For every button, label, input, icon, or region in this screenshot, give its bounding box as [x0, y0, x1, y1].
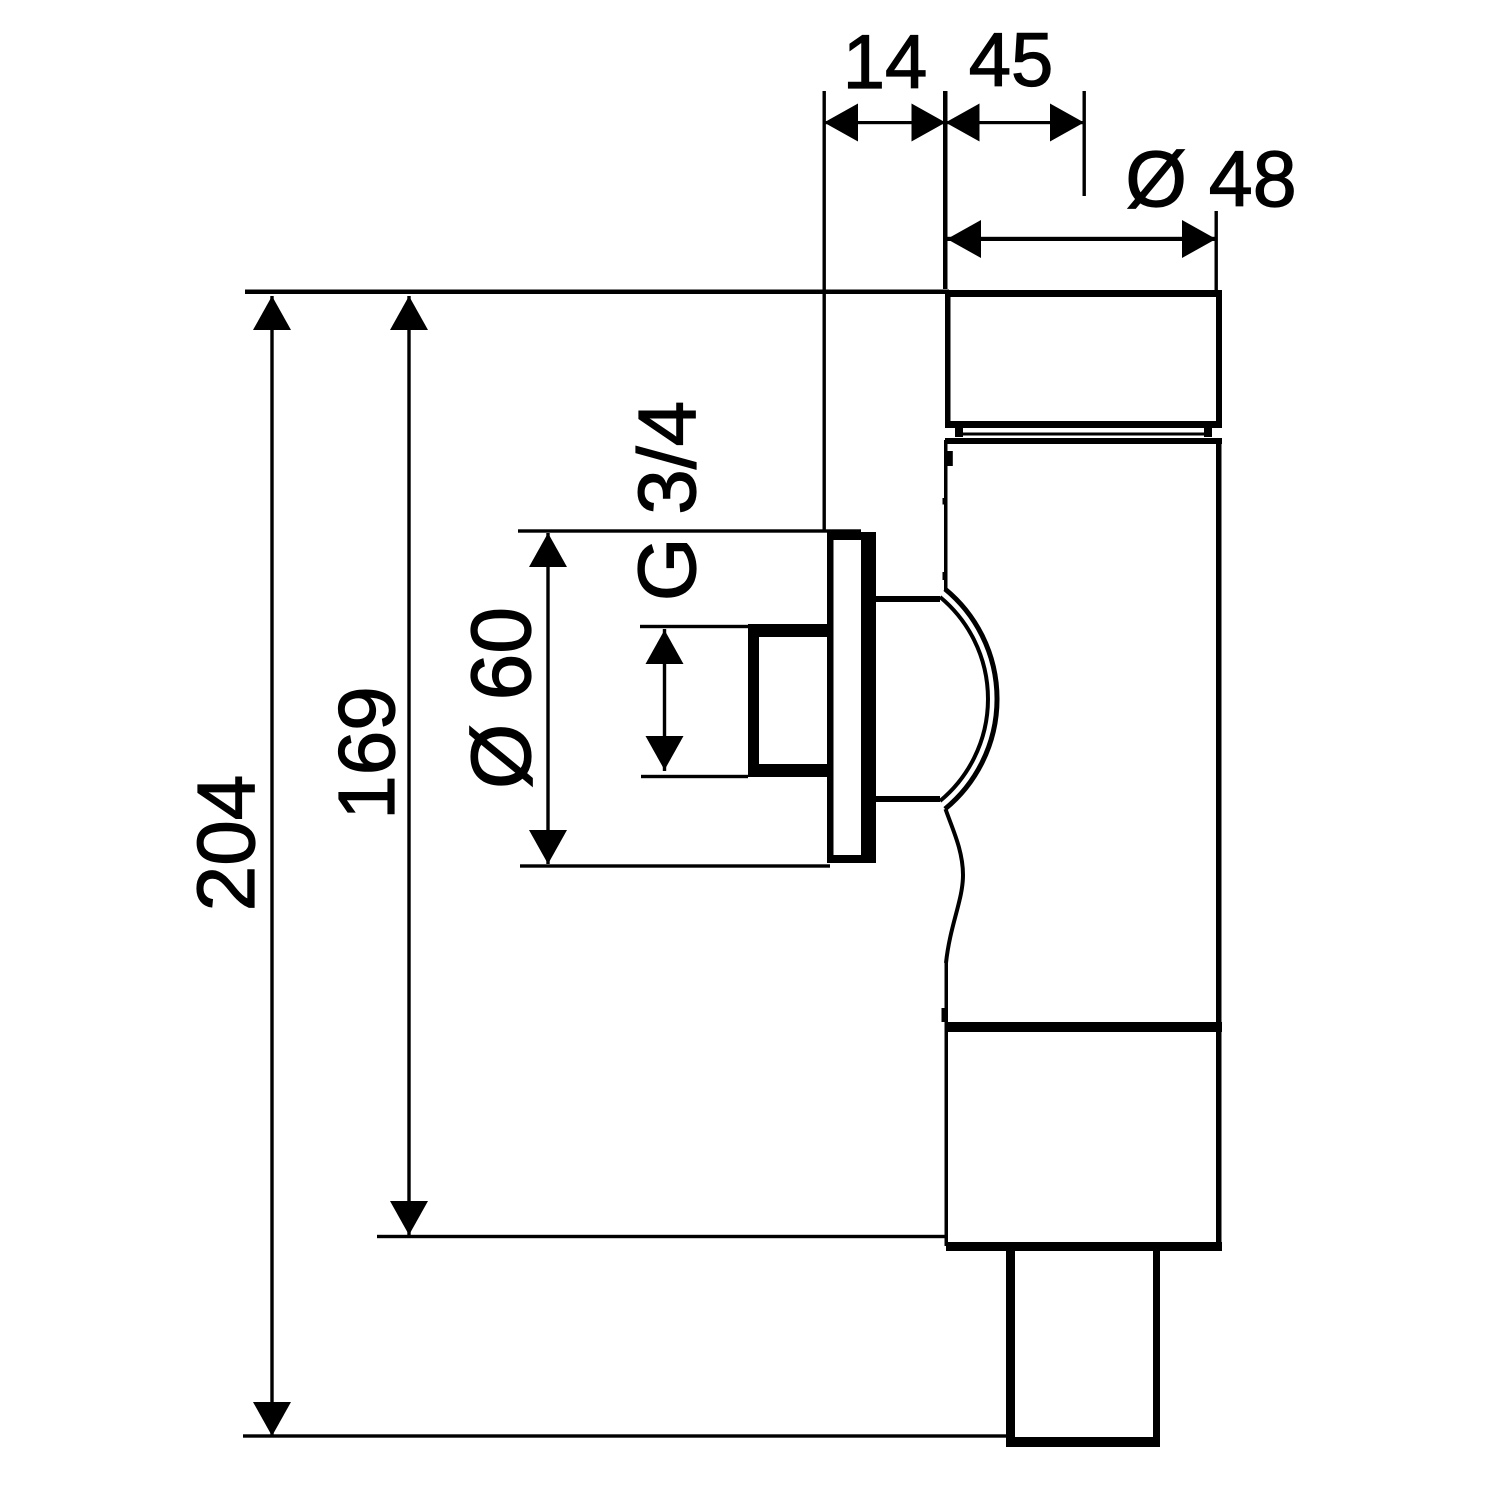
svg-text:169: 169 [322, 686, 411, 819]
extension line 169 bottom [377, 1235, 948, 1238]
dome collar top [876, 596, 940, 602]
body left edge nub b [943, 572, 946, 580]
extension line 204 bottom [243, 1434, 1010, 1437]
arrow 45 left [946, 104, 980, 142]
arrow 14 right [912, 104, 946, 142]
extension line 14/45 middle [943, 91, 948, 289]
svg-text:G 3/4: G 3/4 [622, 401, 713, 602]
groove notch right [1204, 426, 1212, 437]
svg-text:14: 14 [843, 20, 928, 105]
arrow d60 top [529, 533, 567, 567]
body cap left [945, 290, 951, 428]
body s-curve below dome [946, 809, 964, 963]
flange plate right bar [861, 532, 876, 863]
svg-text:45: 45 [969, 18, 1054, 103]
arrow 14 left [824, 104, 858, 142]
body mid divider [946, 1022, 1222, 1032]
flange plate top [827, 532, 876, 540]
dimension line d48 [944, 237, 1216, 241]
arrow 45 right [1050, 104, 1084, 142]
body left edge upper [944, 440, 948, 590]
extension line d48 right [1215, 211, 1218, 290]
g34 box bottom [748, 764, 830, 777]
outlet pipe left [1006, 1247, 1015, 1447]
body left edge lower [945, 960, 949, 1246]
dimension line 204 [270, 296, 273, 1436]
body left edge step upper [945, 451, 953, 466]
arrow 169 top [390, 296, 428, 330]
svg-text:204: 204 [181, 775, 272, 912]
arrow g34 top [646, 630, 684, 664]
svg-text:Ø 60: Ø 60 [454, 607, 548, 789]
extension line g34 top [640, 625, 748, 628]
body bottom edge [946, 1242, 1222, 1251]
g34 box top [748, 624, 830, 637]
arrow d48 left [947, 220, 981, 258]
body left nub [942, 1008, 947, 1022]
dimension line g34 [663, 629, 666, 771]
svg-text:Ø 48: Ø 48 [1125, 134, 1296, 223]
flange plate bottom [827, 855, 876, 863]
extension line d60 top [518, 529, 861, 532]
arrow 204 top [253, 296, 291, 330]
extension line d60 bottom [520, 864, 830, 867]
dimension line 169 [407, 296, 410, 1235]
top extension line (wall top line) [245, 290, 949, 295]
extension line 14 left [823, 91, 826, 532]
arrow g34 bottom [646, 736, 684, 770]
body cap top [945, 290, 1222, 297]
arrow 169 bottom [390, 1201, 428, 1235]
outlet pipe bottom [1006, 1437, 1160, 1447]
body cap right [1216, 290, 1222, 428]
groove line [958, 433, 1210, 436]
body top line [945, 438, 1222, 444]
arrow d48 right [1182, 220, 1216, 258]
dome inner arc [940, 597, 988, 801]
extension line g34 bottom [641, 775, 748, 778]
dome collar bottom [876, 796, 940, 802]
body cap bottom [945, 421, 1222, 428]
g34 box left [748, 624, 759, 777]
dome outer arc [945, 589, 997, 809]
body left edge nub a [943, 498, 946, 505]
dimension line 14-45 [824, 121, 1084, 124]
groove notch left [955, 426, 963, 437]
dimension line d60 [546, 533, 549, 864]
flange plate left [827, 532, 834, 863]
arrow 204 bottom [253, 1402, 291, 1436]
arrow d60 bottom [529, 830, 567, 864]
body right edge [1216, 440, 1222, 1250]
extension line 45 right [1083, 91, 1086, 196]
outlet pipe right [1153, 1247, 1160, 1447]
